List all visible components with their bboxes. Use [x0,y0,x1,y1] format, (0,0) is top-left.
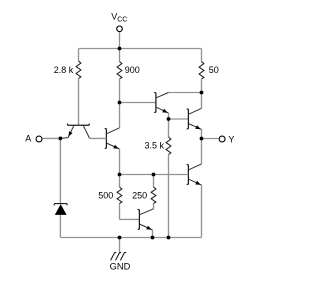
wire: Q4 collector riser [201,93,203,109]
node junction Vcc rail [118,47,122,51]
wire: ground stub [119,238,121,254]
transistor Q1 [67,124,89,126]
svg-text:250: 250 [132,190,147,200]
wire: Q4 emitter drop [201,130,203,139]
transistor Q6 [138,209,140,229]
transistor Q2 [105,128,107,148]
resistor R2 900 [119,49,121,62]
node node 250 top [152,173,156,177]
wire: diode to ground rail [59,215,61,238]
wire: output node to Y [202,138,219,140]
svg-text:2.8 k: 2.8 k [54,65,74,75]
wire: Vcc rail [79,48,202,50]
wire: ground rail [60,237,201,239]
svg-text:CC: CC [117,16,127,23]
wire: input A to node [42,137,60,139]
resistor R5 50 [201,49,203,62]
wire: 500 to Q6 base [120,218,140,220]
resistor R1 2.8k [78,49,80,62]
svg-text:900: 900 [125,65,140,75]
node node C (50/Q3/Q4) [200,91,204,95]
wire: Vcc stub [119,32,121,49]
node input node A [59,137,63,141]
svg-text:A: A [25,134,31,144]
node node D (Q3 em/Q4 base) [167,117,171,121]
wire: output node to Q5 collector [201,139,203,164]
svg-text:GND: GND [110,262,131,272]
wire: Q1 collector to Q2 base [90,137,107,139]
ground [111,252,127,260]
wire: node to Q4 base [169,118,189,120]
wire: Q2 emitter drop [119,149,121,175]
terminal Y [219,136,225,142]
node output node [200,137,204,141]
transistor Q4 [187,109,189,129]
wire: Q3 emitter drop [168,113,170,119]
wire: input node down to diode [59,138,61,203]
resistor R4 3.5k [168,119,170,137]
diode D1 input clamp [54,204,67,206]
transistor Q5 [187,165,189,185]
node gnd tap [118,236,122,240]
svg-text:50: 50 [209,65,219,75]
terminal Vcc [117,26,123,32]
wire: Q5 emitter drop [201,185,203,237]
node Q6 emitter junction [151,236,155,240]
svg-text:500: 500 [98,190,113,200]
node node B (900/Q2/Q3) [118,101,122,105]
wire: node B down to Q2 collector [119,103,121,128]
wire: node B to Q3 base [120,102,156,104]
resistor R3 500 [119,175,121,188]
node node E (Q2 em/500) [118,173,122,177]
svg-text:Y: Y [228,134,234,144]
terminal A [36,136,42,142]
wire: Q2 emitter node to Q5 base [120,174,189,176]
wire: Q6 emitter drop [152,230,154,238]
wire: Q3 collector to 50 [169,92,202,94]
node 3.5k bottom junction [167,236,171,240]
transistor Q3 [154,93,156,113]
svg-text:3.5 k: 3.5 k [144,141,164,151]
resistor R6 250 [153,175,155,188]
